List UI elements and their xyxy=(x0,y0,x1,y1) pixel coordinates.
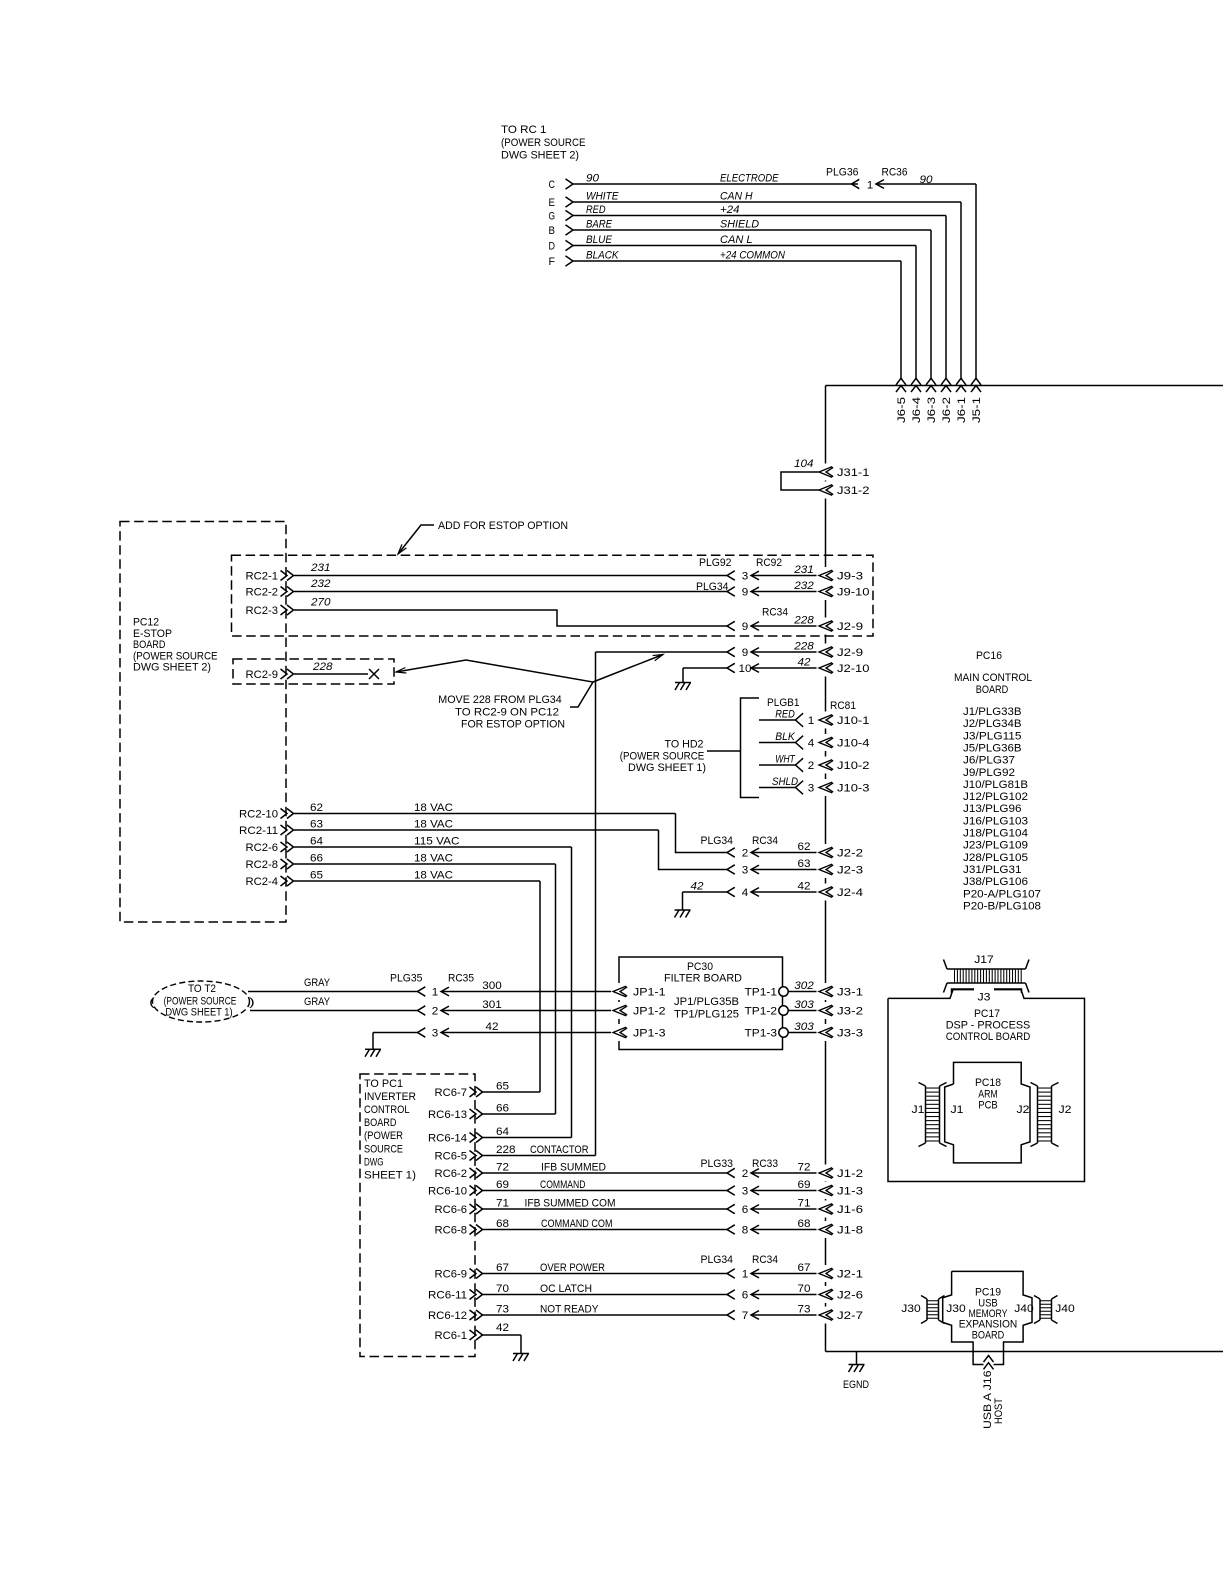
svg-text:BLUE: BLUE xyxy=(586,234,612,246)
svg-text:COMMAND: COMMAND xyxy=(540,1179,586,1191)
svg-text:J5/PLG36B: J5/PLG36B xyxy=(963,742,1022,754)
svg-text:65: 65 xyxy=(310,870,323,882)
svg-text:J2-6: J2-6 xyxy=(837,1290,863,1302)
svg-text:RED: RED xyxy=(586,204,606,216)
svg-text:BOARD: BOARD xyxy=(364,1117,397,1129)
svg-text:RC34: RC34 xyxy=(752,1254,778,1266)
svg-text:4: 4 xyxy=(742,887,749,899)
svg-text:67: 67 xyxy=(798,1262,811,1274)
svg-text:CONTROL: CONTROL xyxy=(364,1104,410,1116)
svg-text:228: 228 xyxy=(793,615,814,627)
svg-text:): ) xyxy=(249,997,255,1009)
svg-text:(POWER SOURCE: (POWER SOURCE xyxy=(133,650,218,662)
svg-text:RC6-13: RC6-13 xyxy=(428,1109,467,1121)
svg-text:115 VAC: 115 VAC xyxy=(414,836,460,848)
svg-text:EGND: EGND xyxy=(843,1379,869,1391)
svg-text:65: 65 xyxy=(496,1081,509,1093)
svg-text:67: 67 xyxy=(496,1262,509,1274)
svg-text:RC6-8: RC6-8 xyxy=(435,1225,468,1237)
svg-text:BOARD: BOARD xyxy=(972,1330,1005,1342)
svg-text:69: 69 xyxy=(496,1179,509,1191)
svg-text:J1-8: J1-8 xyxy=(837,1225,863,1237)
svg-text:42: 42 xyxy=(798,657,812,669)
svg-text:BLK: BLK xyxy=(775,731,795,743)
svg-text:64: 64 xyxy=(496,1126,509,1138)
svg-text:DWG SHEET 1): DWG SHEET 1) xyxy=(628,762,706,774)
svg-text:CONTACTOR: CONTACTOR xyxy=(530,1144,589,1156)
svg-text:90: 90 xyxy=(586,173,600,185)
svg-text:PC12: PC12 xyxy=(133,617,159,629)
svg-text:J16/PLG103: J16/PLG103 xyxy=(963,815,1028,827)
svg-text:RC6-6: RC6-6 xyxy=(435,1204,468,1216)
svg-text:231: 231 xyxy=(310,562,331,574)
svg-text:J6-3: J6-3 xyxy=(926,397,938,423)
svg-text:72: 72 xyxy=(798,1162,811,1174)
svg-text:TP1/PLG125: TP1/PLG125 xyxy=(674,1009,739,1021)
svg-text:300: 300 xyxy=(482,980,502,992)
svg-text:303: 303 xyxy=(794,999,814,1011)
svg-text:RC36: RC36 xyxy=(882,167,908,179)
svg-text:232: 232 xyxy=(793,580,814,592)
svg-text:WHITE: WHITE xyxy=(586,191,619,203)
svg-text:RC2-10: RC2-10 xyxy=(239,809,278,821)
svg-text:PLG35: PLG35 xyxy=(390,973,423,985)
svg-text:MOVE 228 FROM PLG34: MOVE 228 FROM PLG34 xyxy=(438,694,562,706)
svg-text:228: 228 xyxy=(496,1144,516,1156)
svg-text:PLG34: PLG34 xyxy=(696,581,729,593)
svg-text:RC34: RC34 xyxy=(762,607,788,619)
svg-text:MAIN CONTROL: MAIN CONTROL xyxy=(954,672,1032,684)
svg-text:68: 68 xyxy=(798,1218,811,1230)
svg-text:228: 228 xyxy=(312,661,333,673)
svg-text:J2: J2 xyxy=(1059,1104,1072,1116)
svg-text:RC2-9: RC2-9 xyxy=(246,669,279,681)
svg-text:DWG SHEET 1): DWG SHEET 1) xyxy=(165,1007,232,1019)
svg-text:J30: J30 xyxy=(901,1303,921,1315)
svg-text:J6/PLG37: J6/PLG37 xyxy=(963,755,1015,767)
svg-text:J23/PLG109: J23/PLG109 xyxy=(963,840,1028,852)
svg-text:228: 228 xyxy=(793,641,814,653)
svg-text:6: 6 xyxy=(742,1290,749,1302)
svg-text:RC6-10: RC6-10 xyxy=(428,1186,467,1198)
svg-text:72: 72 xyxy=(496,1162,509,1174)
svg-text:J1-3: J1-3 xyxy=(837,1186,863,1198)
svg-text:10: 10 xyxy=(739,663,752,675)
svg-text:62: 62 xyxy=(310,802,323,814)
svg-text:JP1-2: JP1-2 xyxy=(633,1006,666,1018)
svg-text:J9-10: J9-10 xyxy=(837,587,870,599)
svg-text:OVER POWER: OVER POWER xyxy=(540,1262,605,1274)
svg-text:NOT READY: NOT READY xyxy=(540,1304,599,1316)
svg-text:WHT: WHT xyxy=(775,754,795,766)
svg-text:J18/PLG104: J18/PLG104 xyxy=(963,828,1028,840)
svg-text:FOR ESTOP OPTION: FOR ESTOP OPTION xyxy=(461,719,565,731)
svg-text:J1-2: J1-2 xyxy=(837,1168,863,1180)
svg-text:J10/PLG81B: J10/PLG81B xyxy=(963,779,1028,791)
svg-text:TO RC 1: TO RC 1 xyxy=(501,124,547,136)
svg-text:J40: J40 xyxy=(1055,1303,1075,1315)
svg-text:J6-2: J6-2 xyxy=(941,397,953,423)
svg-text:2: 2 xyxy=(742,1168,749,1180)
svg-text:66: 66 xyxy=(310,853,323,865)
svg-text:RC33: RC33 xyxy=(752,1158,778,1170)
svg-text:IFB SUMMED COM: IFB SUMMED COM xyxy=(525,1198,616,1210)
svg-text:DSP - PROCESS: DSP - PROCESS xyxy=(946,1020,1031,1032)
svg-text:C: C xyxy=(549,179,556,191)
svg-text:(: ( xyxy=(149,997,155,1009)
svg-text:303: 303 xyxy=(794,1021,814,1033)
svg-text:J3-3: J3-3 xyxy=(837,1028,863,1040)
svg-text:+24 COMMON: +24 COMMON xyxy=(720,250,786,262)
svg-text:1: 1 xyxy=(808,715,815,727)
svg-text:62: 62 xyxy=(798,841,811,853)
svg-text:J38/PLG106: J38/PLG106 xyxy=(963,876,1028,888)
svg-text:2: 2 xyxy=(742,848,749,860)
svg-text:PC17: PC17 xyxy=(974,1008,1000,1020)
svg-text:J10-2: J10-2 xyxy=(837,760,870,772)
svg-text:F: F xyxy=(549,256,556,268)
svg-text:18 VAC: 18 VAC xyxy=(414,819,453,831)
svg-text:231: 231 xyxy=(793,564,814,576)
svg-text:69: 69 xyxy=(798,1179,811,1191)
svg-text:3: 3 xyxy=(808,783,815,795)
svg-text:J12/PLG102: J12/PLG102 xyxy=(963,791,1028,803)
svg-text:RC2-2: RC2-2 xyxy=(246,587,279,599)
svg-text:J1: J1 xyxy=(951,1104,964,1116)
svg-text:P20-B/PLG108: P20-B/PLG108 xyxy=(963,900,1041,912)
svg-text:PLG92: PLG92 xyxy=(699,557,732,569)
svg-text:J6-1: J6-1 xyxy=(956,397,968,423)
svg-text:18 VAC: 18 VAC xyxy=(414,870,453,882)
svg-text:J10-1: J10-1 xyxy=(837,715,870,727)
svg-text:PLG36: PLG36 xyxy=(826,167,859,179)
svg-text:SHIELD: SHIELD xyxy=(720,219,759,231)
svg-text:TP1-3: TP1-3 xyxy=(745,1028,778,1040)
svg-text:J3: J3 xyxy=(978,992,991,1004)
svg-text:2: 2 xyxy=(808,760,815,772)
svg-text:3: 3 xyxy=(432,1028,439,1040)
svg-text:RC81: RC81 xyxy=(830,700,856,712)
svg-text:OC LATCH: OC LATCH xyxy=(540,1283,592,1295)
svg-text:IFB SUMMED: IFB SUMMED xyxy=(541,1162,606,1174)
svg-text:E: E xyxy=(549,197,556,209)
svg-text:SHLD: SHLD xyxy=(772,776,798,788)
svg-text:INVERTER: INVERTER xyxy=(364,1091,416,1103)
svg-text:1: 1 xyxy=(432,987,439,999)
svg-text:J10-3: J10-3 xyxy=(837,783,870,795)
svg-text:DWG: DWG xyxy=(364,1156,384,1168)
svg-text:PC16: PC16 xyxy=(976,650,1002,662)
svg-text:301: 301 xyxy=(482,999,502,1011)
svg-text:DWG SHEET 2): DWG SHEET 2) xyxy=(133,662,211,674)
svg-text:TP1-2: TP1-2 xyxy=(745,1006,778,1018)
svg-text:J40: J40 xyxy=(1014,1303,1034,1315)
svg-text:90: 90 xyxy=(920,174,934,186)
svg-text:71: 71 xyxy=(798,1198,811,1210)
svg-text:1: 1 xyxy=(742,1269,749,1281)
svg-text:FILTER BOARD: FILTER BOARD xyxy=(664,973,742,985)
svg-text:COMMAND COM: COMMAND COM xyxy=(541,1218,613,1230)
svg-text:RC35: RC35 xyxy=(448,973,474,985)
svg-text:J2/PLG34B: J2/PLG34B xyxy=(963,718,1022,730)
svg-text:302: 302 xyxy=(794,980,814,992)
svg-text:70: 70 xyxy=(496,1283,509,1295)
svg-text:68: 68 xyxy=(496,1218,509,1230)
svg-text:J6-4: J6-4 xyxy=(911,397,923,423)
svg-text:J3-1: J3-1 xyxy=(837,987,863,999)
svg-text:RC2-6: RC2-6 xyxy=(246,842,279,854)
svg-text:J2-10: J2-10 xyxy=(837,663,870,675)
svg-text:TO HD2: TO HD2 xyxy=(665,739,704,751)
svg-text:J9/PLG92: J9/PLG92 xyxy=(963,767,1015,779)
svg-text:RED: RED xyxy=(775,709,795,721)
svg-text:PLG34: PLG34 xyxy=(701,835,734,847)
svg-text:JP1-3: JP1-3 xyxy=(633,1028,666,1040)
svg-text:7: 7 xyxy=(742,1310,749,1322)
svg-text:3: 3 xyxy=(742,571,749,583)
svg-text:J2-9: J2-9 xyxy=(837,621,863,633)
svg-text:232: 232 xyxy=(310,578,331,590)
svg-text:2: 2 xyxy=(432,1006,439,1018)
svg-text:RC6-12: RC6-12 xyxy=(428,1310,467,1322)
svg-text:9: 9 xyxy=(742,647,749,659)
svg-text:J3/PLG115: J3/PLG115 xyxy=(963,730,1022,742)
svg-text:J30: J30 xyxy=(946,1303,966,1315)
svg-text:(POWER SOURCE: (POWER SOURCE xyxy=(501,137,586,149)
svg-text:3: 3 xyxy=(742,865,749,877)
svg-text:J31/PLG31: J31/PLG31 xyxy=(963,864,1022,876)
svg-text:J10-4: J10-4 xyxy=(837,738,870,750)
svg-text:66: 66 xyxy=(496,1103,509,1115)
svg-text:RC6-7: RC6-7 xyxy=(435,1087,468,1099)
svg-text:RC2-11: RC2-11 xyxy=(239,825,278,837)
svg-text:PC30: PC30 xyxy=(687,961,713,973)
svg-text:J2-2: J2-2 xyxy=(837,848,863,860)
svg-text:DWG SHEET 2): DWG SHEET 2) xyxy=(501,150,579,162)
svg-text:RC2-8: RC2-8 xyxy=(246,859,279,871)
svg-text:8: 8 xyxy=(742,1225,749,1237)
svg-text:6: 6 xyxy=(742,1204,749,1216)
svg-text:RC6-9: RC6-9 xyxy=(435,1269,468,1281)
svg-text:RC6-2: RC6-2 xyxy=(435,1168,468,1180)
svg-text:J6-5: J6-5 xyxy=(896,397,908,423)
svg-text:104: 104 xyxy=(794,458,814,470)
svg-text:SOURCE: SOURCE xyxy=(364,1143,403,1155)
svg-text:RC6-14: RC6-14 xyxy=(428,1133,467,1145)
svg-text:D: D xyxy=(549,241,556,253)
svg-text:70: 70 xyxy=(798,1283,811,1295)
svg-text:TP1-1: TP1-1 xyxy=(745,987,778,999)
svg-text:RC2-1: RC2-1 xyxy=(246,571,279,583)
svg-text:TO PC1: TO PC1 xyxy=(364,1078,403,1090)
svg-text:PCB: PCB xyxy=(978,1100,998,1112)
svg-text:SHEET 1): SHEET 1) xyxy=(364,1169,416,1181)
svg-text:RC6-11: RC6-11 xyxy=(428,1290,467,1302)
svg-text:J13/PLG96: J13/PLG96 xyxy=(963,803,1022,815)
svg-text:J1-6: J1-6 xyxy=(837,1204,863,1216)
svg-text:+24: +24 xyxy=(720,204,740,216)
svg-text:J2-4: J2-4 xyxy=(837,887,863,899)
svg-text:TO RC2-9 ON PC12: TO RC2-9 ON PC12 xyxy=(455,707,559,719)
svg-text:J1: J1 xyxy=(912,1104,925,1116)
svg-text:PLG34: PLG34 xyxy=(701,1254,734,1266)
svg-text:RC2-3: RC2-3 xyxy=(246,605,279,617)
svg-text:PC18: PC18 xyxy=(975,1077,1001,1089)
svg-text:PLGB1: PLGB1 xyxy=(767,697,800,709)
svg-text:GRAY: GRAY xyxy=(304,977,330,989)
svg-text:BOARD: BOARD xyxy=(976,684,1009,696)
svg-text:J2-3: J2-3 xyxy=(837,865,863,877)
svg-text:1: 1 xyxy=(867,180,874,192)
svg-text:9: 9 xyxy=(742,621,749,633)
svg-text:42: 42 xyxy=(798,881,811,893)
svg-text:G: G xyxy=(549,211,556,223)
svg-text:B: B xyxy=(549,225,556,237)
svg-text:42: 42 xyxy=(691,881,705,893)
svg-text:ADD FOR ESTOP OPTION: ADD FOR ESTOP OPTION xyxy=(438,520,568,532)
svg-text:RC6-1: RC6-1 xyxy=(435,1330,468,1342)
svg-text:270: 270 xyxy=(310,597,331,609)
svg-text:ELECTRODE: ELECTRODE xyxy=(720,173,779,185)
svg-text:BLACK: BLACK xyxy=(586,250,619,262)
svg-text:RC2-4: RC2-4 xyxy=(246,876,279,888)
svg-text:J3-2: J3-2 xyxy=(837,1006,863,1018)
svg-text:JP1-1: JP1-1 xyxy=(633,987,666,999)
svg-text:42: 42 xyxy=(496,1322,509,1334)
svg-text:J2-9: J2-9 xyxy=(837,647,863,659)
svg-text:E-STOP: E-STOP xyxy=(133,628,172,640)
svg-text:(POWER: (POWER xyxy=(364,1130,403,1142)
svg-text:TO T2: TO T2 xyxy=(188,983,216,995)
svg-text:J9-3: J9-3 xyxy=(837,571,863,583)
svg-text:3: 3 xyxy=(742,1186,749,1198)
svg-text:63: 63 xyxy=(798,858,811,870)
svg-text:4: 4 xyxy=(808,738,815,750)
svg-text:J28/PLG105: J28/PLG105 xyxy=(963,852,1028,864)
svg-text:JP1/PLG35B: JP1/PLG35B xyxy=(674,996,739,1008)
svg-text:J31-2: J31-2 xyxy=(837,485,870,497)
svg-text:63: 63 xyxy=(310,819,323,831)
svg-text:GRAY: GRAY xyxy=(304,996,330,1008)
svg-text:64: 64 xyxy=(310,836,323,848)
svg-text:CAN H: CAN H xyxy=(720,191,753,203)
svg-text:42: 42 xyxy=(486,1021,499,1033)
svg-text:J1/PLG33B: J1/PLG33B xyxy=(963,706,1022,718)
svg-text:RC34: RC34 xyxy=(752,835,778,847)
svg-text:J5-1: J5-1 xyxy=(971,397,983,423)
svg-text:18 VAC: 18 VAC xyxy=(414,853,453,865)
svg-text:BARE: BARE xyxy=(586,219,612,231)
svg-text:J17: J17 xyxy=(974,954,994,966)
svg-text:CONTROL BOARD: CONTROL BOARD xyxy=(946,1031,1031,1043)
svg-text:RC6-5: RC6-5 xyxy=(435,1151,468,1163)
svg-text:9: 9 xyxy=(742,587,749,599)
svg-text:J31-1: J31-1 xyxy=(837,467,870,479)
svg-text:PLG33: PLG33 xyxy=(701,1158,734,1170)
svg-text:J2-7: J2-7 xyxy=(837,1310,863,1322)
svg-text:RC92: RC92 xyxy=(756,557,782,569)
svg-text:P20-A/PLG107: P20-A/PLG107 xyxy=(963,888,1041,900)
svg-text:J2: J2 xyxy=(1017,1104,1030,1116)
svg-text:(POWER SOURCE: (POWER SOURCE xyxy=(620,751,705,763)
svg-text:18 VAC: 18 VAC xyxy=(414,802,453,814)
svg-text:HOST: HOST xyxy=(993,1398,1005,1424)
svg-text:CAN L: CAN L xyxy=(720,234,753,246)
svg-text:J2-1: J2-1 xyxy=(837,1269,863,1281)
svg-text:73: 73 xyxy=(496,1304,509,1316)
svg-text:BOARD: BOARD xyxy=(133,639,166,651)
svg-text:71: 71 xyxy=(496,1198,509,1210)
svg-text:73: 73 xyxy=(798,1304,811,1316)
